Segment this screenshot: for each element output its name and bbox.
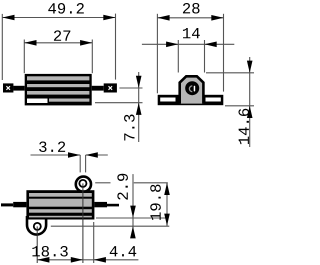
text 4.4	[110, 246, 137, 256]
dim 2.9	[51, 174, 170, 239]
text 14.6 rot	[238, 109, 249, 144]
dim 28	[157, 3, 223, 93]
dim 14.6	[206, 57, 254, 147]
dim 49.2	[2, 3, 115, 80]
dim 27	[24, 30, 92, 73]
text 3.2	[39, 141, 65, 152]
right terminal lug	[92, 83, 117, 92]
technical dimension drawing of aluminium-housed power resistor	[0, 0, 254, 265]
left terminal lug	[3, 83, 25, 92]
text 28	[183, 3, 200, 14]
resistor body end view (chamfered)	[180, 76, 204, 103]
right lead	[94, 202, 119, 207]
core circle	[185, 81, 199, 95]
resistor body side view	[25, 74, 92, 106]
mounting flange bar	[158, 95, 224, 105]
dim 19.8	[150, 183, 170, 226]
dim 3.2	[31, 141, 108, 172]
text 49.2	[48, 3, 84, 14]
text 14	[183, 28, 200, 38]
dim 18.3 and 4.4	[32, 222, 138, 263]
text 18.3	[32, 246, 67, 257]
centerline top lug	[82, 183, 84, 263]
dim 7.3	[95, 72, 143, 142]
text 19.8 rot	[150, 185, 161, 220]
bottom mounting lug	[27, 216, 46, 235]
top lug hole ring	[79, 180, 86, 187]
text 7.3 rot	[124, 115, 135, 141]
dim 14	[142, 28, 234, 72]
text 2.9 rot	[117, 174, 128, 200]
centerline bottom lug	[36, 226, 38, 263]
resistor body top view	[26, 190, 94, 219]
text 27	[54, 30, 70, 40]
bottom lug hole ring	[34, 223, 41, 230]
left lead	[1, 202, 26, 207]
top mounting lug	[76, 177, 91, 192]
